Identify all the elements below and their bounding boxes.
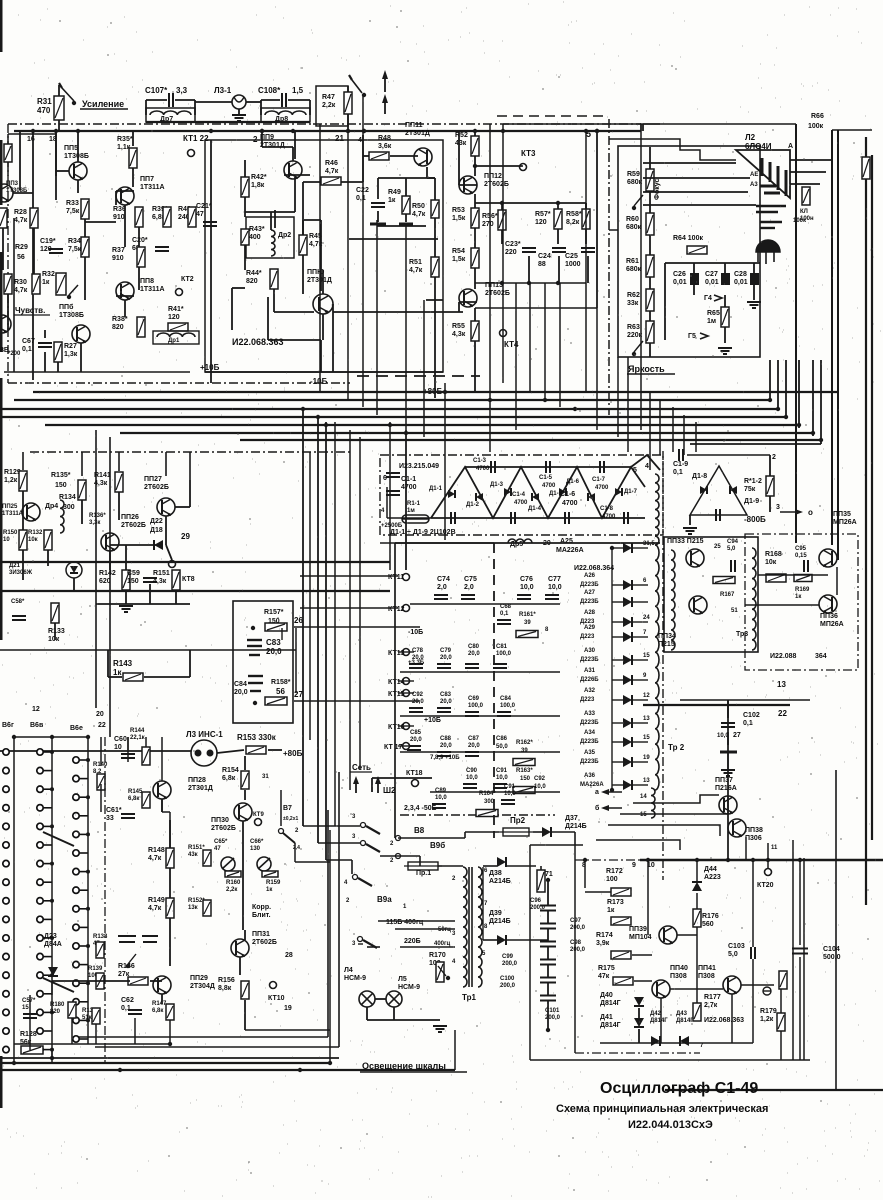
wire [110, 544, 163, 546]
resistor R34 [81, 237, 89, 257]
wire node2 down [261, 131, 263, 147]
test point KT9 [255, 819, 262, 826]
svg-text:R143: R143 [113, 659, 133, 668]
capacitor C101 symbol [540, 996, 556, 1001]
svg-text:ПП41: ПП41 [698, 965, 716, 972]
diode А28 Д223 [623, 617, 632, 627]
svg-text:П216А: П216А [715, 785, 737, 792]
wire [464, 832, 466, 838]
diode А32 Д223 [623, 695, 632, 705]
wire [693, 263, 695, 273]
svg-text:Корр.: Корр. [252, 904, 271, 911]
test point KT12 [403, 605, 410, 612]
svg-text:С1-1: С1-1 [401, 476, 416, 483]
svg-text:R32: R32 [42, 271, 55, 278]
svg-text:Д37: Д37 [565, 815, 578, 822]
test point KT3 [520, 164, 527, 171]
svg-text:С1-6: С1-6 [560, 491, 575, 498]
resistor R27 [54, 342, 62, 362]
vertical x866 [865, 137, 867, 905]
svg-text:Д41: Д41 [600, 1014, 613, 1021]
wire [458, 302, 460, 312]
arrow b [604, 807, 622, 809]
svg-text:28: 28 [285, 952, 293, 959]
svg-text:R150: R150 [3, 530, 18, 536]
svg-text:1к: 1к [113, 668, 122, 677]
power rail [640, 859, 883, 862]
svg-text:31: 31 [262, 774, 269, 780]
wire [459, 301, 477, 303]
underline [14, 314, 50, 316]
svg-text:R128: R128 [20, 1031, 37, 1038]
svg-text:43к: 43к [455, 140, 467, 147]
svg-text:7,8,9 +10Б: 7,8,9 +10Б [430, 755, 460, 761]
dash-dot power [575, 859, 660, 861]
resistor R63 [646, 321, 654, 343]
svg-text:R158*: R158* [271, 679, 291, 686]
diode D1-4 [532, 493, 539, 501]
svg-text:С59: С59 [127, 570, 140, 577]
capacitor C99 symbol [540, 960, 556, 965]
svg-text:R136*: R136* [89, 513, 106, 519]
inductor Dr8 [265, 111, 306, 115]
svg-text:2Т602Б: 2Т602Б [484, 181, 509, 188]
resistor R59 [646, 169, 654, 191]
wire R147 down [169, 1020, 171, 1044]
wire [162, 811, 170, 813]
svg-text:С84: С84 [500, 696, 512, 702]
underline [360, 1071, 467, 1073]
wire grid top [14, 736, 88, 738]
capacitor C22 [371, 203, 385, 207]
svg-text:115Б 400гц: 115Б 400гц [386, 919, 424, 926]
svg-text:4700: 4700 [514, 500, 528, 506]
wire x435 [434, 178, 436, 200]
svg-text:б: б [595, 804, 600, 812]
test point KT10 [270, 982, 277, 989]
wire [727, 732, 729, 745]
junction corner [776, 407, 780, 411]
test point KT17 [403, 743, 410, 750]
module dash-dot 2 [30, 451, 350, 453]
resistor R160 [225, 871, 241, 877]
resistor R174 [611, 951, 631, 959]
svg-text:200,0: 200,0 [500, 983, 516, 989]
svg-text:560: 560 [702, 921, 714, 928]
wire st2 [620, 796, 728, 814]
svg-text:Д814Г: Д814Г [600, 1022, 621, 1029]
svg-text:R168: R168 [765, 551, 782, 558]
svg-text:С83: С83 [440, 692, 452, 698]
svg-text:КТ13: КТ13 [388, 650, 405, 657]
svg-text:R61: R61 [626, 258, 639, 265]
svg-text:8В: 8В [0, 347, 9, 354]
wire C107 right [175, 99, 195, 101]
svg-text:А28: А28 [584, 610, 596, 616]
capacitor C67 [38, 343, 52, 347]
wire [540, 866, 542, 870]
test point KT1 [188, 150, 195, 157]
junction power rail [726, 858, 730, 862]
diode А34 Д223Б [623, 737, 632, 747]
winding Tr3 right [752, 548, 756, 650]
svg-text:С100: С100 [500, 976, 515, 982]
svg-text:ПП12: ПП12 [484, 173, 502, 180]
bus line 7 [240, 439, 821, 441]
wire [303, 181, 321, 183]
svg-text:И22.068.364: И22.068.364 [574, 565, 614, 572]
svg-text:4,7к: 4,7к [325, 168, 339, 175]
stub x166 [165, 452, 167, 476]
wire primary tap1 [395, 928, 455, 930]
svg-text:33: 33 [106, 815, 114, 822]
wire R52 top [474, 131, 476, 136]
svg-text:R174: R174 [596, 932, 613, 939]
svg-text:1000: 1000 [565, 261, 581, 268]
capacitor C103 [751, 947, 755, 959]
svg-text:R151: R151 [153, 570, 170, 577]
wire R140 top [100, 737, 102, 766]
wire [47, 550, 49, 566]
svg-text:С66*: С66* [250, 839, 264, 845]
svg-text:3,3к: 3,3к [89, 520, 100, 526]
resistor R139 [96, 973, 104, 989]
svg-text:5: 5 [633, 467, 637, 474]
wire R137 down [95, 1024, 97, 1044]
svg-text:+10Б: +10Б [424, 717, 441, 724]
wire st4 [596, 840, 680, 850]
wire diode cathode [633, 784, 648, 786]
wire [260, 100, 262, 115]
svg-text:470: 470 [37, 106, 51, 115]
svg-text:31,5: 31,5 [643, 541, 655, 547]
transistor PP11 [414, 148, 432, 166]
wire [190, 649, 296, 651]
wire [125, 545, 127, 570]
svg-text:R49: R49 [388, 189, 401, 196]
svg-text:13к: 13к [188, 905, 198, 911]
resistor R65 [721, 307, 729, 327]
svg-text:Фокус: Фокус [654, 179, 661, 200]
wire KT3 [475, 165, 523, 167]
bus line 1 [33, 391, 838, 393]
pot arrow R32 [69, 285, 78, 295]
power box top [530, 844, 583, 846]
junction [362, 129, 366, 133]
svg-text:ПП35: ПП35 [833, 511, 851, 518]
svg-text:7,5к: 7,5к [66, 208, 80, 215]
svg-text:R147: R147 [152, 1001, 167, 1007]
svg-text:6,8к: 6,8к [128, 796, 139, 802]
arrow up 1 [384, 73, 386, 92]
capacitor C83b [437, 708, 451, 712]
wire diode cathode [633, 601, 648, 603]
svg-text:2Т602Б: 2Т602Б [121, 522, 146, 529]
wire [585, 203, 587, 209]
wire [302, 255, 304, 294]
svg-text:МП26А: МП26А [820, 621, 844, 628]
wire to power box [552, 831, 575, 833]
wire R175 out [634, 980, 652, 982]
resistor R58 [582, 209, 590, 229]
wire [664, 263, 666, 290]
svg-text:Д21: Д21 [9, 563, 21, 569]
svg-text:С92: С92 [534, 776, 546, 782]
wire [33, 228, 35, 274]
resistor R154 [241, 771, 249, 789]
bottom rail right [665, 1089, 883, 1091]
wire x586 [585, 131, 587, 392]
wire [454, 1030, 456, 1070]
junction y131 [346, 129, 350, 133]
capacitor C1-6 sym [565, 512, 569, 524]
wire [149, 584, 151, 604]
svg-text:ПП8: ПП8 [140, 278, 154, 285]
wire [752, 959, 754, 1043]
wire [169, 918, 171, 966]
svg-text:Д84А: Д84А [44, 941, 62, 948]
svg-text:130: 130 [250, 846, 261, 852]
diode D23 [48, 967, 58, 976]
wire [80, 343, 82, 372]
wire C104 down [799, 957, 801, 1060]
junction R158 [253, 701, 257, 705]
wire R48 to PP11 base [390, 155, 418, 157]
wire R144 top [145, 737, 147, 747]
wire rail y178 [378, 177, 435, 179]
wire [175, 590, 177, 604]
pot arrow [438, 966, 446, 976]
capacitor C62 [128, 1010, 142, 1014]
junction power rail [583, 858, 587, 862]
transistor PP33 [686, 549, 704, 567]
wire [557, 229, 559, 244]
wire C57 [29, 1008, 31, 1050]
svg-text:Д1-1: Д1-1 [429, 486, 443, 492]
svg-text:10к: 10к [48, 636, 60, 643]
diode D43 [680, 1036, 689, 1046]
junction misc [328, 1061, 332, 1065]
svg-text:С23*: С23* [505, 241, 521, 248]
svg-text:47: 47 [196, 211, 204, 218]
svg-text:R59: R59 [627, 171, 640, 178]
svg-text:R154: R154 [222, 767, 239, 774]
capacitor C26 [690, 273, 699, 285]
junction corner [819, 438, 823, 442]
wire C107 left [146, 99, 167, 101]
junction [500, 201, 504, 205]
resistor R173 [611, 917, 631, 925]
svg-text:300: 300 [63, 504, 75, 511]
wire [769, 455, 771, 476]
wire diode anode [612, 784, 623, 786]
wire [724, 327, 726, 343]
wire [274, 311, 314, 313]
wire [124, 300, 126, 317]
transistor PP39 [659, 926, 677, 944]
svg-text:22: 22 [98, 722, 106, 729]
ground PP26 [119, 606, 133, 612]
svg-text:20,0: 20,0 [440, 655, 452, 661]
svg-text:А25: А25 [560, 538, 573, 545]
resistor R157 [265, 623, 287, 631]
junction [346, 129, 350, 133]
wire box left inner [210, 140, 212, 372]
module dash-dot PP35 [745, 534, 858, 670]
dash border x105 [104, 737, 106, 1063]
transistor PP31 [231, 939, 249, 957]
core Tr1 a [468, 867, 470, 987]
wire [474, 194, 476, 208]
wire diode anode [612, 679, 623, 681]
winding Tr1 primary [463, 867, 467, 987]
svg-text:10: 10 [3, 537, 10, 543]
svg-text:КТ3: КТ3 [521, 149, 536, 158]
wire [244, 209, 246, 211]
svg-text:25: 25 [714, 544, 721, 550]
capacitor C108 [282, 93, 286, 107]
wire [358, 943, 363, 945]
wire [387, 517, 431, 519]
HV output triangle [690, 466, 747, 515]
svg-text:11: 11 [771, 845, 778, 851]
resistor R162 [513, 759, 535, 766]
pot dot brightness [632, 352, 636, 356]
bus line 4 [0, 416, 786, 418]
cap bank rail y672 [400, 671, 560, 673]
module box top y543 [395, 542, 660, 544]
wire [7, 134, 9, 144]
long wire x350 [349, 430, 351, 790]
svg-text:Д223: Д223 [580, 634, 595, 640]
winding Tr2 secondary [655, 545, 659, 790]
svg-text:+10Б: +10Б [200, 363, 220, 372]
resistor R150 [19, 530, 27, 550]
bus corner up x813 [812, 360, 814, 436]
wire top right [832, 129, 872, 131]
svg-text:А26: А26 [584, 573, 596, 579]
wire C62 down [134, 1018, 136, 1044]
svg-text:С21*: С21* [196, 203, 212, 210]
junction power rail [751, 858, 755, 862]
junction misc [546, 878, 550, 882]
wire PP40-PP41 [670, 988, 723, 990]
diode D39 [497, 935, 506, 945]
long wire x360 [359, 437, 361, 770]
svg-text:ПП40: ПП40 [670, 965, 688, 972]
capacitor C20 [155, 247, 169, 251]
svg-text:R177: R177 [704, 994, 721, 1001]
svg-text:ПП5: ПП5 [64, 145, 78, 152]
svg-text:820: 820 [112, 324, 124, 331]
svg-text:0,1: 0,1 [22, 346, 32, 353]
capacitor C23 [522, 248, 536, 252]
svg-text:А29: А29 [584, 625, 596, 631]
svg-text:1,2к: 1,2к [4, 477, 18, 484]
svg-text:15: 15 [643, 735, 650, 741]
svg-text:С75: С75 [464, 576, 477, 583]
pot dot R32 [67, 295, 71, 299]
wire [189, 650, 191, 677]
wire [769, 496, 771, 512]
diode А36 МА226А [623, 780, 632, 790]
wire [638, 1029, 640, 1043]
svg-text:С24: С24 [538, 253, 551, 260]
svg-text:Сеть: Сеть [352, 763, 371, 772]
svg-text:4,3к: 4,3к [153, 578, 167, 585]
bus line 3 [0, 408, 778, 410]
junction misc [610, 788, 614, 792]
wire [116, 295, 134, 297]
wire to Tr1 [438, 865, 463, 867]
capacitor C80 [465, 664, 479, 668]
connector arrow Sh2 b [377, 780, 379, 793]
svg-text:R175: R175 [598, 965, 615, 972]
long wire x326 [325, 422, 327, 860]
wire diode anode [612, 659, 623, 661]
transistor PP35 [819, 549, 837, 567]
svg-text:27: 27 [733, 732, 741, 739]
svg-text:1,3к: 1,3к [64, 351, 78, 358]
svg-text:КТ10: КТ10 [268, 995, 285, 1002]
wire [295, 861, 330, 863]
cap bank rail y752 [400, 751, 560, 753]
resistor R153 [246, 746, 266, 754]
wire PP41 down [731, 994, 733, 1043]
svg-text:П215: П215 [658, 641, 675, 648]
svg-text:ПП7: ПП7 [140, 176, 154, 183]
junction y131 [76, 129, 80, 133]
diode D44 [692, 882, 702, 891]
resistor R179 [777, 1013, 785, 1031]
svg-text:0,1: 0,1 [743, 720, 753, 727]
svg-text:100к: 100к [808, 123, 824, 130]
wire diode anode [612, 547, 623, 549]
wire x377 [376, 220, 378, 415]
svg-text:+80Б: +80Б [283, 749, 303, 758]
wire PP35-36 link [836, 567, 838, 595]
junction [595, 129, 599, 133]
svg-text:КТ11: КТ11 [388, 574, 404, 581]
resistor R30v [4, 274, 12, 294]
wire zener rail [600, 1042, 753, 1044]
wire [161, 799, 163, 812]
diode А25 МА226А [623, 543, 632, 553]
long wire x303 [302, 407, 304, 826]
ground R65 [718, 348, 732, 354]
wire diode cathode [633, 621, 648, 623]
svg-text:П308: П308 [698, 973, 715, 980]
svg-text:Пр2: Пр2 [510, 816, 526, 825]
junction [260, 129, 264, 133]
svg-text:1Т308Б: 1Т308Б [59, 312, 84, 319]
svg-text:R53: R53 [452, 207, 465, 214]
wire [547, 1001, 549, 1030]
svg-text:14: 14 [640, 794, 647, 800]
svg-text:С62: С62 [121, 997, 134, 1004]
svg-text:Др4: Др4 [45, 503, 58, 510]
wiper blade [43, 978, 74, 992]
dashed border y116 [497, 115, 607, 117]
svg-text:С69: С69 [468, 696, 480, 702]
wire to PP35 [758, 574, 828, 576]
svg-text:10,0: 10,0 [520, 584, 534, 591]
svg-text:R34: R34 [68, 238, 81, 245]
svg-text:С79: С79 [440, 648, 452, 654]
svg-text:КТ16: КТ16 [388, 724, 405, 731]
wire [169, 868, 171, 898]
wire [547, 880, 549, 905]
